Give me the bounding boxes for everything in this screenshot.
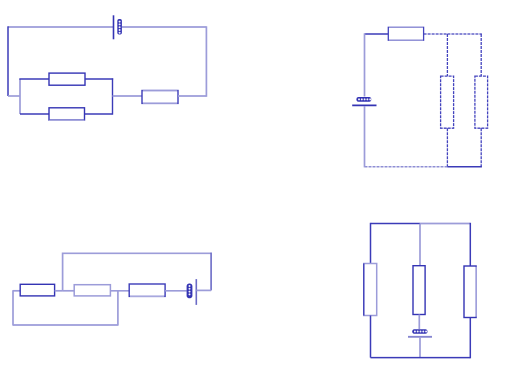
resistor B-R1 light bottom edge [389,39,423,41]
battery B4 long plate [408,336,432,338]
battery B1 long plate [113,15,115,39]
wire C (R1 to T1) [55,290,63,292]
wire C bottom loop left vertical [12,290,14,325]
resistor B-R2 [441,76,454,128]
wire B top dashed (mid node to right corner) [447,33,482,35]
resistor D-R3 light right edge [475,267,477,317]
wire D top (mid to right) [420,223,470,225]
resistor B-R1 light top edge [389,26,423,28]
resistor C-R2 [74,285,110,296]
battery B2 coil plate [356,97,371,102]
resistor D-R1 [364,264,377,316]
wire C top bypass right vertical [210,253,212,291]
resistor B-R3 [475,76,488,128]
wire B left vertical upper [364,33,366,96]
resistor B-R1 [388,27,423,40]
battery B3 coil plate [187,284,193,299]
wire C (R2 to T2/R3) [110,290,129,292]
wire B left vertical lower [364,107,366,168]
wire B top dashed (R1 to mid node) [424,33,448,35]
resistor C-R3 [129,284,165,296]
wire B bottom (mid to right) [447,166,482,168]
wire D top (left to mid) [371,223,421,225]
resistor C-R1 [20,284,54,296]
wire A left vertical [7,26,9,96]
wire A box bottom-right segment [85,113,113,115]
wire C left stub [13,290,20,292]
wire A box bottom-left segment [20,113,49,115]
resistor D-R1 dark left edge [363,264,365,316]
wire C bottom loop horizontal [13,324,118,326]
wire C (T1 to R2) [63,290,75,292]
resistor D-R3 [464,266,476,318]
wire A right vertical [205,26,207,97]
wire D right vertical lower [469,318,471,359]
wire C top bypass horizontal [63,252,212,254]
wire D left vertical upper [370,223,372,264]
wire A box top-right segment [85,78,113,80]
wire A top-right (battery to right corner) [122,26,206,28]
wire D mid vertical upper [419,224,421,266]
wire B mid vertical upper [446,34,448,76]
resistor A-R3 light top edge [143,90,178,92]
wire B right vertical upper [480,34,482,76]
wire C bottom loop right vertical (T2) [117,290,119,325]
wire A box right vertical [112,78,114,114]
battery B4 coil plate [412,329,427,334]
wire C junction T1 vertical [62,253,64,291]
resistor D-R2 [413,266,425,315]
wire D left vertical lower [370,316,372,358]
resistor C-R3 light bottom edge [130,295,164,297]
wire B right vertical lower [480,128,482,167]
wire B bottom (left to mid) [365,166,448,168]
resistor A-R3 [142,91,178,104]
wire B top-left segment [365,33,389,35]
battery B3 long plate [195,279,197,305]
battery B2 long plate [352,104,376,106]
wire D right vertical upper [469,223,471,266]
wire B mid vertical lower [446,128,448,167]
wire A top-left (battery to left corner) [8,26,113,28]
wire D bottom [371,357,471,359]
resistor A-R1 [49,73,85,85]
wire D mid (R2 to battery) [418,315,420,330]
wire A (R3 to right corner) [178,95,206,97]
wire C (R3 to battery) [165,290,186,292]
wire A left stub to parallel box [8,95,20,97]
resistor A-R3 light bottom edge [143,102,178,104]
resistor A-R2 [49,108,85,120]
wire A parallel box left vertical [19,79,21,114]
wire A mid (box to R3) [113,95,143,97]
wire D mid vertical lower (battery to bottom) [419,338,421,358]
wire C (battery to right vertical) [196,289,211,291]
battery B1 coil plate [117,19,122,35]
resistor A-R2 light bottom edge [49,119,85,121]
wire A box top-left segment [19,78,49,80]
